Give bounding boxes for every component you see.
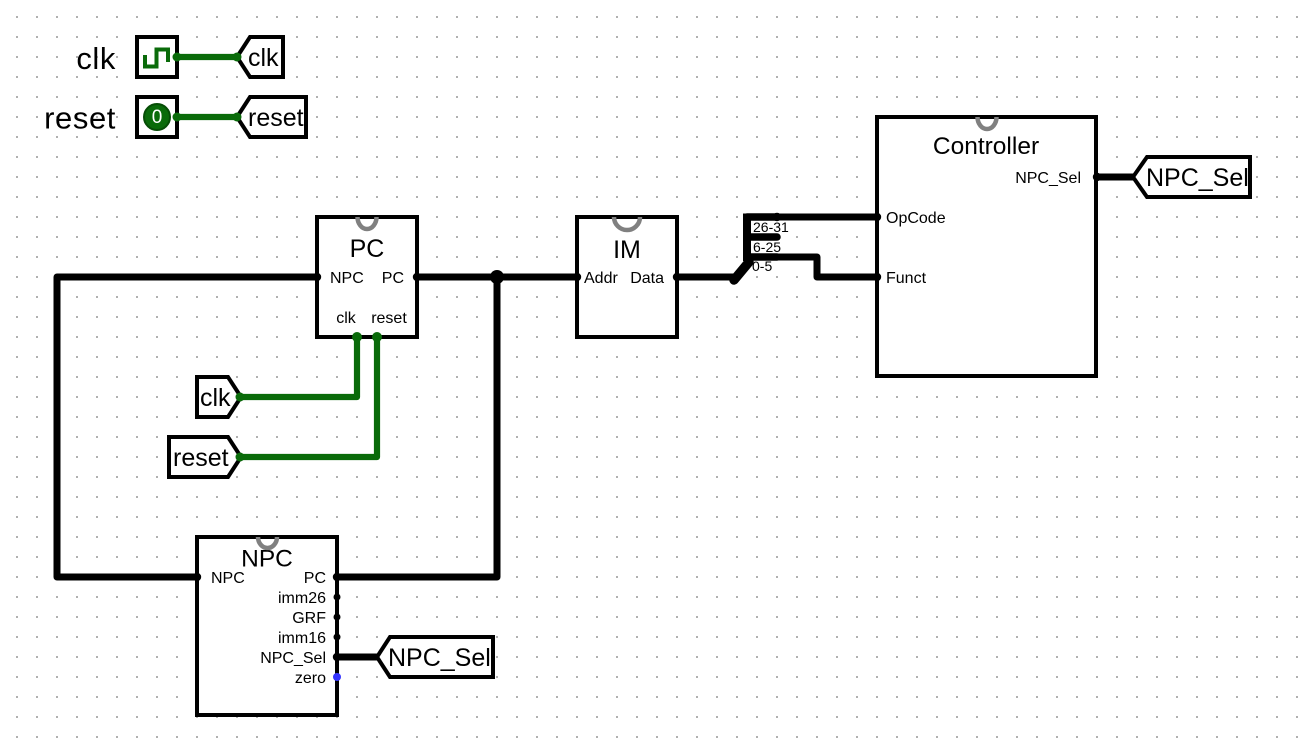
- tunnel clk (mid, facing east): [197, 377, 241, 417]
- svg-text:zero: zero: [295, 670, 326, 687]
- pin dot Controller.NPC_Sel: [1093, 173, 1101, 181]
- pin dot tunnel clk top: [233, 53, 242, 62]
- pin dot NPC.PC: [333, 573, 341, 581]
- wire tunnel reset to PC.reset: [240, 337, 377, 457]
- pin dot tunnel clk mid: [236, 393, 245, 402]
- svg-text:IM: IM: [613, 236, 641, 264]
- pin dot NPC.NPC: [193, 573, 201, 581]
- notch Controller facing marker: [978, 117, 997, 129]
- svg-text:PC: PC: [382, 270, 404, 287]
- pin dot clock output: [173, 53, 182, 62]
- tunnel reset (mid, facing east): [169, 437, 241, 477]
- pin dot NPC.imm16 unconnected: [334, 634, 341, 641]
- svg-text:imm16: imm16: [278, 630, 326, 647]
- tunnel NPC_Sel (bottom, facing west): [377, 637, 493, 677]
- wire left loop: PC.NPC to NPC.NPC: [57, 277, 317, 577]
- tunnel clk (top, facing west): [237, 37, 283, 77]
- wire tunnel clk to PC.clk: [240, 337, 357, 397]
- pin dot PC.PC: [413, 273, 421, 281]
- subcircuit PC: [317, 217, 417, 337]
- pin dot IM.Data: [673, 273, 681, 281]
- svg-text:clk: clk: [248, 44, 279, 72]
- pin dot NPC.imm26 unconnected: [334, 594, 341, 601]
- pin dot PC.reset: [372, 332, 382, 342]
- pin dot NPC.NPC_Sel: [333, 653, 341, 661]
- subcircuit NPC: [197, 537, 337, 715]
- svg-text:Controller: Controller: [933, 133, 1039, 160]
- svg-text:imm26: imm26: [278, 590, 326, 607]
- wire junction down to NPC.PC: [337, 277, 497, 577]
- wire clock to tunnel clk: [177, 54, 237, 60]
- splitter branch 26-31: [747, 213, 777, 221]
- tunnel NPC_Sel (right, facing west): [1133, 157, 1250, 197]
- pin dot NPC.zero floating (blue): [333, 673, 341, 681]
- pin dot Controller.OpCode: [873, 213, 881, 221]
- splitter branch 0-5: [747, 253, 777, 261]
- svg-text:6-25: 6-25: [753, 239, 781, 255]
- svg-text:clk: clk: [200, 384, 231, 412]
- wire pin to tunnel reset: [177, 114, 237, 120]
- splitter diagonal: [734, 262, 749, 280]
- pin dot tunnel reset mid: [236, 453, 245, 462]
- svg-text:clk: clk: [336, 310, 357, 327]
- wire PC.PC to IM.Addr: [417, 274, 577, 281]
- svg-text:Funct: Funct: [886, 270, 927, 287]
- junction dot: [490, 270, 504, 284]
- subcircuit Controller: [877, 117, 1096, 376]
- svg-text:NPC: NPC: [211, 570, 245, 587]
- svg-text:OpCode: OpCode: [886, 210, 946, 227]
- wire splitter to Controller.OpCode: [777, 214, 877, 221]
- notch PC facing marker: [358, 217, 377, 229]
- svg-text:0-5: 0-5: [752, 258, 772, 274]
- pin dot NPC.GRF unconnected: [334, 614, 341, 621]
- notch NPC facing marker: [258, 537, 277, 548]
- svg-text:26-31: 26-31: [753, 219, 789, 235]
- node splitter branch 26-31 end: [773, 213, 781, 221]
- svg-text:0: 0: [152, 107, 163, 128]
- pin dot tunnel reset top: [233, 113, 242, 122]
- svg-text:reset: reset: [173, 444, 229, 472]
- svg-text:NPC_Sel: NPC_Sel: [260, 650, 326, 667]
- wire NPC.NPC_Sel to tunnel: [337, 654, 377, 661]
- svg-text:Addr: Addr: [584, 270, 618, 287]
- svg-text:reset: reset: [44, 101, 116, 136]
- svg-text:NPC_Sel: NPC_Sel: [1015, 170, 1081, 187]
- svg-text:clk: clk: [76, 41, 116, 76]
- svg-text:reset: reset: [371, 310, 407, 327]
- tunnel reset (top, facing west): [237, 97, 306, 137]
- wire splitter to Controller.Funct: [777, 257, 877, 277]
- notch IM facing marker: [614, 217, 640, 230]
- svg-text:NPC: NPC: [330, 270, 364, 287]
- splitter branch 6-25: [747, 233, 777, 241]
- pin dot IM.Addr: [573, 273, 581, 281]
- clock CLK1 body: [137, 37, 177, 77]
- svg-text:reset: reset: [248, 104, 304, 132]
- pin dot reset pin output: [173, 113, 182, 122]
- subcircuit IM: [577, 217, 677, 337]
- splitter trunk: [743, 214, 751, 262]
- svg-text:Data: Data: [630, 270, 664, 287]
- pin dot PC.NPC: [313, 273, 321, 281]
- svg-text:NPC_Sel: NPC_Sel: [1146, 164, 1249, 192]
- svg-text:PC: PC: [304, 570, 326, 587]
- wire Controller.NPC_Sel to tunnel: [1097, 174, 1133, 181]
- svg-text:NPC_Sel: NPC_Sel: [388, 644, 491, 672]
- input pin reset source: [137, 97, 177, 137]
- svg-text:GRF: GRF: [292, 610, 326, 627]
- svg-text:PC: PC: [350, 235, 385, 263]
- pin dot Controller.Funct: [873, 273, 881, 281]
- wire IM.Data to splitter: [677, 274, 737, 281]
- pin dot PC.clk: [352, 332, 362, 342]
